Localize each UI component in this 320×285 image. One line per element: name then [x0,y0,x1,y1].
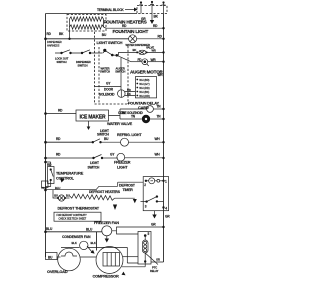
note box [54,212,101,221]
svg-text:ICE MAKER: ICE MAKER [80,115,106,121]
resistor heater 1 [70,17,104,21]
svg-text:BLU: BLU [86,228,93,232]
wire left rail [45,14,47,258]
wire ice maker out [109,109,147,119]
wire condenser row [46,232,102,251]
svg-text:TERMINAL BLOCK: TERMINAL BLOCK [97,8,124,12]
terminal block TB1 [137,1,167,14]
lamp freezer light [117,153,125,161]
wire timer pin 3 stub [141,201,147,203]
solenoid water dispenser valve [133,48,165,55]
relay contact arrow to compressor [87,246,92,252]
svg-text:SOLENOID: SOLENOID [99,93,115,97]
thermostat defrost (circle X) [57,195,66,201]
compressor [96,247,145,274]
svg-text:FREEZER FAN: FREEZER FAN [94,220,119,225]
svg-text:SWITCH: SWITCH [88,166,101,170]
light switch label refrig [88,121,90,127]
lamp fountain light [129,35,137,43]
wire freezer light row [46,157,94,159]
svg-text:CONTROL: CONTROL [56,176,75,181]
wire right rail [163,14,165,263]
terminal block label [97,8,138,13]
svg-text:SWITCH: SWITCH [78,63,88,67]
compressor label arrow [122,272,126,276]
dispenser assembly dashed box [95,28,129,104]
svg-text:WR: WR [158,73,164,77]
ground arrow heaters [133,199,137,203]
switch freezer light [92,157,94,159]
fountain heaters box [67,15,106,32]
svg-text:LIGHT: LIGHT [117,166,128,170]
wire top bus [46,13,138,15]
svg-text:SWITCH: SWITCH [100,70,110,74]
switch lock out [55,50,82,64]
svg-text:WR: WR [152,48,156,52]
svg-text:WH: WH [155,153,161,157]
svg-text:WH (OR): WH (OR) [139,94,150,98]
motor freezer fan [102,226,112,243]
wire heaters left down [69,27,71,39]
svg-text:HARNESS: HARNESS [47,44,60,48]
wire ice maker feed [46,113,77,115]
svg-text:PLB: PLB [42,186,47,190]
wire fountain light row [46,38,129,40]
ice maker box [76,110,109,121]
svg-text:RD: RD [127,88,131,92]
svg-text:DISPENSER: DISPENSER [47,40,62,44]
node rail junction [44,189,47,192]
switch dispenser cluster [103,49,137,90]
svg-text:WH (BR): WH (BR) [139,78,149,82]
svg-text:BU: BU [54,194,58,198]
switch refrig light [92,141,94,143]
svg-text:BLK: BLK [72,241,77,245]
svg-text:RELAY: RELAY [150,269,159,273]
motor condenser fan [61,241,138,263]
fountain delay card box [135,73,163,98]
svg-text:LIGHT SWITCH: LIGHT SWITCH [97,40,123,45]
svg-text:OVERLOAD: OVERLOAD [47,269,68,274]
svg-text:CONDENSER FAN: CONDENSER FAN [62,235,91,239]
switch actuator [76,50,103,68]
relay assembly [117,231,164,265]
svg-text:CHECK SEE TECH SHEET: CHECK SEE TECH SHEET [59,217,87,220]
wire refrig light row [46,141,93,143]
svg-text:BLU: BLU [46,227,53,231]
resistor defrost heaters [65,197,69,199]
svg-text:BLU: BLU [55,186,60,190]
svg-text:FOR DEFROST CONTINUITY: FOR DEFROST CONTINUITY [57,214,88,217]
wire GY door solenoid [95,86,121,88]
ground arrow under timer [154,211,156,215]
svg-text:WH (RD): WH (RD) [139,86,149,90]
svg-text:TIMER: TIMER [123,188,134,192]
solenoid door [118,88,136,97]
svg-text:BU: BU [66,194,70,198]
svg-text:BK: BK [127,92,131,96]
svg-text:DOOR: DOOR [104,88,114,92]
defrost timer box [143,177,168,211]
svg-text:WR: WR [151,58,157,62]
overload protector [58,248,96,271]
svg-text:COMPRESSOR: COMPRESSOR [93,273,119,278]
svg-text:WH (GY): WH (GY) [139,82,149,86]
svg-text:WATER VALVE: WATER VALVE [107,121,133,126]
svg-text:BLK: BLK [91,241,96,245]
svg-text:FREEZER: FREEZER [114,161,131,165]
svg-text:DEFROST HEATERS: DEFROST HEATERS [89,190,121,194]
wire overload feed [46,253,61,260]
svg-text:REFRIG. LIGHT: REFRIG. LIGHT [117,133,142,137]
svg-text:DEFROST THERMOSTAT: DEFROST THERMOSTAT [58,206,100,210]
svg-text:WH: WH [155,137,161,141]
ground GR arrow [141,14,154,25]
svg-text:FOUNTAIN LIGHT: FOUNTAIN LIGHT [113,29,149,34]
lamp refrig light [121,138,129,146]
svg-text:GR: GR [156,258,160,262]
ground arrow thermostat [113,205,117,211]
wire heaters to right rail [104,27,164,28]
svg-text:BK: BK [133,48,137,52]
solenoid cube [147,106,154,113]
thermostat temperature control [44,161,64,187]
svg-text:LIGHT: LIGHT [90,161,99,165]
svg-text:SWITCH: SWITCH [115,70,125,74]
resistor heater 2 [70,25,104,29]
wire defrost row [46,182,144,198]
svg-text:WH (BK): WH (BK) [139,90,149,94]
motor auger [131,58,165,66]
wire freezer fan to rail [112,227,164,231]
connector plug PLB [42,181,49,188]
svg-text:SWITCH: SWITCH [57,60,67,64]
solenoid water valve [142,115,150,123]
